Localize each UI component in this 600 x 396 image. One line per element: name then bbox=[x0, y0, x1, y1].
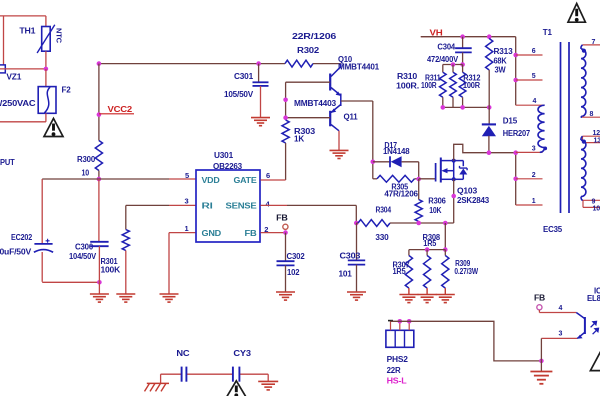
svg-text:VH: VH bbox=[430, 27, 443, 37]
svg-text:105/50V: 105/50V bbox=[224, 89, 253, 99]
svg-text:100R: 100R bbox=[421, 80, 437, 90]
svg-text:R300: R300 bbox=[77, 154, 95, 164]
svg-text:4: 4 bbox=[533, 98, 537, 105]
svg-text:VCC2: VCC2 bbox=[108, 104, 133, 114]
svg-text:330: 330 bbox=[375, 232, 389, 242]
svg-text:100R.: 100R. bbox=[396, 80, 419, 90]
svg-text:RI: RI bbox=[202, 202, 213, 211]
svg-text:VDD: VDD bbox=[202, 176, 220, 185]
svg-text:NTC: NTC bbox=[55, 28, 64, 44]
svg-text:A/250VAC: A/250VAC bbox=[0, 98, 35, 108]
svg-text:MMBT4401: MMBT4401 bbox=[338, 62, 379, 72]
svg-text:GND: GND bbox=[202, 229, 222, 238]
svg-text:1: 1 bbox=[185, 224, 189, 233]
svg-text:CY3: CY3 bbox=[233, 348, 251, 358]
svg-text:8: 8 bbox=[590, 111, 594, 118]
svg-text:3: 3 bbox=[532, 146, 536, 153]
svg-text:10uF/50V: 10uF/50V bbox=[0, 247, 31, 257]
svg-text:C304: C304 bbox=[437, 42, 455, 52]
svg-text:C301: C301 bbox=[234, 71, 253, 81]
svg-text:22R/1206: 22R/1206 bbox=[292, 31, 337, 41]
svg-text:10K: 10K bbox=[429, 205, 442, 215]
svg-text:R304: R304 bbox=[376, 204, 392, 214]
svg-text:FB: FB bbox=[534, 294, 546, 303]
svg-text:3: 3 bbox=[185, 197, 189, 206]
svg-text:C302: C302 bbox=[287, 251, 305, 261]
svg-text:1R5: 1R5 bbox=[393, 266, 406, 276]
svg-text:EL817: EL817 bbox=[587, 294, 600, 303]
svg-text:2SK2843: 2SK2843 bbox=[457, 195, 489, 205]
svg-text:7: 7 bbox=[592, 39, 596, 46]
svg-text:5: 5 bbox=[185, 171, 189, 180]
svg-text:OB2263: OB2263 bbox=[213, 161, 242, 171]
svg-text:9: 9 bbox=[592, 199, 596, 206]
svg-text:PHS2: PHS2 bbox=[387, 354, 409, 364]
svg-text:F2: F2 bbox=[62, 84, 71, 94]
svg-text:MMBT4403: MMBT4403 bbox=[294, 98, 336, 108]
svg-text:Q11: Q11 bbox=[344, 112, 358, 122]
svg-text:EC202: EC202 bbox=[11, 232, 32, 242]
svg-text:3: 3 bbox=[559, 331, 563, 338]
svg-text:VZ1: VZ1 bbox=[6, 72, 21, 82]
svg-text:U301: U301 bbox=[214, 150, 233, 160]
svg-text:100R: 100R bbox=[463, 80, 481, 90]
svg-text:0.27/3W: 0.27/3W bbox=[454, 266, 478, 276]
svg-text:FB: FB bbox=[276, 214, 288, 223]
svg-text:47R/1206: 47R/1206 bbox=[384, 188, 418, 198]
svg-text:6: 6 bbox=[266, 171, 270, 180]
svg-text:PUT: PUT bbox=[0, 157, 15, 167]
svg-text:HS-L: HS-L bbox=[387, 376, 407, 386]
svg-text:10: 10 bbox=[593, 206, 600, 213]
svg-text:13: 13 bbox=[594, 137, 600, 144]
svg-text:1R5: 1R5 bbox=[423, 238, 436, 248]
svg-text:2: 2 bbox=[532, 172, 536, 179]
svg-text:GATE: GATE bbox=[234, 176, 258, 185]
svg-text:1K: 1K bbox=[294, 134, 305, 144]
svg-text:5: 5 bbox=[532, 73, 536, 80]
svg-text:22R: 22R bbox=[387, 365, 402, 375]
svg-text:D15: D15 bbox=[503, 116, 518, 126]
svg-text:10: 10 bbox=[82, 168, 90, 178]
svg-text:101: 101 bbox=[339, 269, 353, 279]
svg-text:6: 6 bbox=[532, 48, 536, 55]
svg-text:T1: T1 bbox=[543, 27, 552, 37]
svg-text:EC35: EC35 bbox=[543, 224, 562, 234]
svg-text:C303: C303 bbox=[340, 251, 361, 261]
svg-text:TH1: TH1 bbox=[19, 26, 35, 36]
svg-text:1: 1 bbox=[532, 198, 536, 205]
svg-text:104/50V: 104/50V bbox=[69, 251, 96, 261]
svg-text:4: 4 bbox=[559, 305, 563, 312]
svg-text:SENSE: SENSE bbox=[226, 202, 258, 211]
svg-text:102: 102 bbox=[287, 267, 300, 277]
svg-text:FB: FB bbox=[245, 229, 257, 238]
svg-text:3W: 3W bbox=[495, 65, 507, 75]
svg-text:1N4148: 1N4148 bbox=[383, 146, 410, 156]
svg-text:12: 12 bbox=[593, 130, 600, 137]
svg-text:R302: R302 bbox=[297, 45, 319, 55]
svg-text:NC: NC bbox=[176, 348, 189, 358]
svg-text:Q103: Q103 bbox=[457, 185, 477, 195]
svg-text:4: 4 bbox=[266, 199, 271, 208]
svg-text:R313: R313 bbox=[494, 46, 513, 56]
svg-text:HER207: HER207 bbox=[503, 128, 531, 138]
svg-text:100K: 100K bbox=[101, 265, 121, 275]
